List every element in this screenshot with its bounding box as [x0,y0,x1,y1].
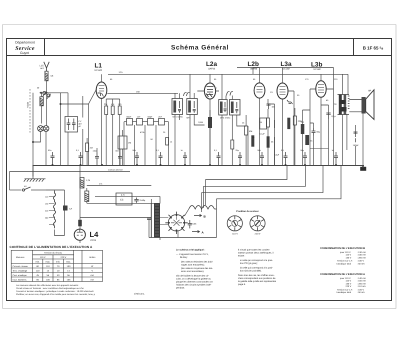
wire chain drops [123,122,169,165]
wire B+ top bus [108,73,348,75]
coupling marks MF2 [227,91,234,95]
wire left riser [9,172,11,191]
svg-text:0,1: 0,1 [156,149,160,152]
svg-text:50pF: 50pF [148,116,153,119]
tube L3b [316,81,326,98]
svg-text:105: 105 [67,278,71,281]
svg-text:tion PO (pt gras);: tion PO (pt gras); [240,262,258,265]
svg-text:95: 95 [57,278,60,281]
header right box divider [353,39,355,56]
svg-text:0,5M: 0,5M [198,121,203,124]
svg-text:1n: 1n [252,136,254,139]
svg-text:CV: CV [79,120,82,123]
resistor 1k osc [166,138,169,146]
barretter resistance wire [189,206,215,210]
svg-text:CONSOMMATION DE L'EXECUTION B: CONSOMMATION DE L'EXECUTION B [320,247,365,250]
wire barretter ends [185,209,217,216]
svg-text:mA: mA [91,278,95,281]
svg-text:170: 170 [305,78,309,81]
svg-text:1n: 1n [181,149,183,152]
terminal A [192,230,200,232]
svg-text:50: 50 [151,138,154,141]
svg-text:la galette telle qu'elle est r: la galette telle qu'elle est représentée [238,280,277,283]
svg-text:45: 45 [36,274,39,277]
svg-text:al Mécano,: al Mécano, [134,292,145,295]
svg-text:pour 110 V: pour 110 V [340,251,351,254]
svg-text:25: 25 [163,131,166,134]
wire extras [87,108,313,165]
capacitor L3a screen [287,100,293,104]
svg-text:Tension du réseau: Tension du réseau [44,252,63,255]
wire B+ feed [87,185,152,187]
svg-text:0,1µ: 0,1µ [332,115,337,118]
measurement table [11,250,102,281]
svg-text:25: 25 [242,122,245,125]
svg-text:10n: 10n [272,106,276,109]
series chain couplers [124,119,169,126]
svg-text:4,7k: 4,7k [121,194,125,197]
wire screen bus [237,67,334,69]
coupling marks MF1 [184,92,190,96]
svg-text:150: 150 [136,90,140,93]
svg-text:50µ: 50µ [317,131,321,134]
wire filter links [87,188,160,203]
svg-text:467: 467 [79,123,83,126]
svg-text:Mesures: Mesures [16,256,25,259]
resistor L3a grid2 [287,118,290,129]
wire L4 feed [80,165,151,243]
consumption block A [320,273,366,294]
svg-text:40: 40 [326,99,329,102]
capacitor cathode bypass [312,128,316,136]
svg-text:Cour. filaments: Cour. filaments [13,278,27,281]
bus junction dots [52,164,365,168]
svg-text:: 205 mA: : 205 mA [357,256,366,259]
rectifier anode blob [78,220,82,227]
svg-text:C9: C9 [270,91,273,94]
svg-text:HP: HP [368,90,372,93]
svg-text:Bi-fréq :: Bi-fréq : [180,256,188,259]
svg-text:: 105 V: : 105 V [357,288,364,291]
svg-text:B 1F 65 5/6: B 1F 65 5/6 [363,46,384,51]
svg-text:0,1: 0,1 [214,149,218,152]
resistor avc [267,136,270,147]
svg-text:50n: 50n [116,150,119,153]
svg-text:1k: 1k [170,141,172,144]
resistor R osc1 [105,106,108,115]
resistor AGC [86,143,89,152]
wire right jog [310,148,329,150]
svg-text:30: 30 [297,94,300,97]
cathode resistor L3a [301,124,305,134]
svg-text:Les mesures doivent être effec: Les mesures doivent être effectuées avec… [16,284,80,287]
oscillator coil [40,97,43,106]
svg-text:là celle qui correspond à: là celle qui correspond à la posi- [240,267,273,270]
svg-text:Schéma Général: Schéma Général [171,45,229,52]
table header text [16,252,96,264]
svg-text:2nF: 2nF [158,116,162,119]
wire transformer leads [149,196,217,240]
svg-text:2x50µ: 2x50µ [140,199,147,202]
wire L1 screen [107,92,178,94]
capacitor chain foot [118,153,122,166]
svg-text:20: 20 [37,87,40,90]
wire socket to transformer [160,218,168,225]
wire hp branch [355,125,357,165]
wire nested drop 3 [202,165,324,193]
svg-text:50n: 50n [133,149,136,152]
resistor R osc3 [118,106,121,115]
svg-text:115 V: 115 V [346,254,352,257]
resistor diode load [245,126,248,135]
IF transformer T1 [172,99,183,115]
svg-text:Tens. chauffage: Tens. chauffage [13,269,28,272]
wire IF feeds [175,74,205,165]
table rows [13,265,29,282]
svg-text:L3b: L3b [311,62,322,69]
coupling cap L2b-L3a [267,104,271,109]
tube L2a [204,83,215,99]
svg-text:110: 110 [46,265,50,268]
svg-text:pF: pF [79,125,82,128]
wire main chassis bus [33,165,365,167]
svg-text:1M: 1M [128,142,131,145]
IF transformer T4 [230,100,241,116]
filter cap [134,198,138,203]
svg-text:CONSOMMATION DE L'EXECUTION A: CONSOMMATION DE L'EXECUTION A [320,273,365,276]
svg-text:1nF: 1nF [137,116,141,119]
resistor R osc2 [111,106,114,115]
svg-text:Int.: Int. [24,185,27,188]
wire speaker leads [334,89,364,167]
tone cap [326,113,330,119]
svg-text:: 180 mA: : 180 mA [357,254,366,257]
svg-text:plaque les diverses commandes: plaque les diverses commandes ont [176,281,213,284]
svg-text:130 V: 130 V [346,282,352,285]
svg-text:56: 56 [47,274,50,277]
wire transfo primary [343,74,349,165]
IF transformer T2 [187,99,198,115]
svg-text:0,05: 0,05 [192,223,197,226]
wire L1 plate [101,74,103,165]
svg-text:14: 14 [47,269,50,272]
wire nested drop 4 [217,165,342,199]
terminal B [194,214,202,216]
loudspeaker [349,90,374,120]
wire mains line [10,189,22,191]
svg-text:470k: 470k [140,131,144,134]
svg-text:27k: 27k [99,183,102,186]
svg-text:CONTROLE DE L'ALIMENTATION DE: CONTROLE DE L'ALIMENTATION DE L'EXECUTIO… [10,245,94,249]
mains transformer core [154,204,160,238]
svg-text:7: 7 [216,87,218,90]
svg-text:W: W [91,265,94,268]
svg-text:110 V: 110 V [40,256,46,259]
svg-text:tion GO (en pointillé).: tion GO (en pointillé). [240,270,262,273]
antenna coil [45,71,48,81]
svg-text:N'utiliser, en aucun cas, d'ap: N'utiliser, en aucun cas, d'appareil à f… [16,293,96,296]
padder box [65,117,78,133]
wire heater chain [46,190,65,236]
CA component [63,206,68,211]
svg-text:: 100 V: : 100 V [357,260,364,263]
filter resistor 1 [80,178,84,189]
chassis earth [24,179,46,182]
ground blob [360,167,366,171]
wire osc left drop [32,93,34,177]
svg-text:80: 80 [36,265,39,268]
svg-text:UBF80: UBF80 [250,68,258,71]
svg-text:: 140 mA: : 140 mA [357,277,366,280]
wire grid chain [248,99,275,165]
antenna [44,62,49,71]
wire grid link [61,89,97,104]
svg-text:max.: max. [46,260,51,263]
svg-text:220 V: 220 V [255,233,261,236]
socket pin dots [168,214,185,231]
tube L3a [277,83,288,99]
svg-text:1k: 1k [310,140,313,143]
svg-text:L15: L15 [40,65,45,68]
svg-text:220 V: 220 V [61,256,67,259]
capacitor 0.05 [188,220,192,228]
svg-text:100: 100 [67,265,71,268]
svg-text:1n: 1n [332,149,334,152]
svg-text:A: A [202,230,205,234]
wire L2b pins [253,68,260,166]
svg-text:Cour. anodique: Cour. anodique [13,274,28,277]
svg-text:Consom. réseau: Consom. réseau [13,265,29,268]
svg-text:cuits, on a développé la galet: cuits, on a développé la galette ou [176,278,212,281]
heater dropper coil [53,191,55,228]
svg-text:existe :: existe : [238,255,246,258]
svg-text:0,1µF: 0,1µF [260,133,266,136]
header left box divider [44,39,46,56]
right text column [238,249,277,287]
svg-text:0,1: 0,1 [76,149,80,152]
svg-text:L3a: L3a [281,61,292,68]
svg-text:130: 130 [45,202,49,205]
svg-text:UY1N: UY1N [90,239,96,242]
svg-text:UCL82: UCL82 [283,68,291,71]
transformer primary line [150,204,152,238]
svg-text:P osition du secteur: P osition du secteur [236,210,258,213]
svg-text:page 6.: page 6. [238,283,246,286]
wire det drops [210,110,232,165]
resistor under T4 [231,140,234,149]
wire osc horizontal [40,92,69,94]
svg-text:(les valeurs résistives des bo: (les valeurs résistives des bobi- [181,261,213,264]
svg-text:220 V: 220 V [346,285,352,288]
svg-text:pendant.: pendant. [176,287,185,290]
svg-text:47k: 47k [111,103,115,106]
decoupling capacitors above bus [51,152,339,165]
svg-text:14: 14 [67,269,70,272]
svg-text:105: 105 [46,278,50,281]
coupling box L2b [260,118,267,129]
grid resistor box [118,136,127,149]
svg-text:95: 95 [214,78,217,81]
svg-text:70: 70 [57,265,60,268]
svg-text:I anodique total: I anodique total [336,291,351,294]
consumption block B [320,247,366,265]
drawing frame [7,39,392,301]
scatter value labels [110,78,338,141]
svg-text:Le schéma a été appliqué :: Le schéma a été appliqué : [176,249,205,252]
svg-text:B: B [204,214,207,218]
svg-text:Département: Département [15,41,35,45]
svg-text:afin de faciliter la lecture d: afin de faciliter la lecture des cir- [176,275,209,278]
svg-text:95: 95 [253,78,256,81]
svg-text:MF1 472kc: MF1 472kc [173,116,183,119]
svg-text:Triode: Triode [27,101,30,108]
svg-text:Contact antenne: Contact antenne [108,168,124,171]
wire L3a pins [283,68,295,166]
wire L3b pins [310,68,334,166]
paper edge right [395,25,397,309]
svg-text:95: 95 [36,278,39,281]
svg-text:CA: CA [69,208,73,211]
svg-text:50µ: 50µ [301,149,305,152]
middle text column [176,249,213,290]
cathode resistor L3b [305,135,309,145]
svg-text:l'aidants des circuits symbles: l'aidants des circuits symbles indé- [176,284,212,287]
mains selector 220V [250,216,265,231]
svg-text:min.: min. [56,260,61,263]
svg-text:2M: 2M [90,147,93,150]
capacitor osc pad [95,153,99,166]
svg-text:Unités: Unités [89,256,96,259]
svg-text:110 V: 110 V [232,233,238,236]
wire nested left ends [202,180,206,213]
wire T3 T4 feeds [222,74,246,165]
wire nested drop 2 [204,165,306,186]
svg-text:50pF: 50pF [127,116,132,119]
mains switch [22,187,46,191]
header band bottom rule [7,55,392,57]
svg-text:240: 240 [45,216,49,219]
svg-text:— L'appareil tous tension CH: — L'appareil tous tension CH V, [176,253,209,256]
resistor screen [293,116,296,125]
svg-text:: 160 mA: : 160 mA [357,280,366,283]
filter resistor 2 [85,191,89,202]
capacitor 150pF pair [354,132,358,142]
svg-text:7,8µF: 7,8µF [274,154,280,157]
detector resistor [208,117,212,128]
wire coil feed [41,93,43,124]
svg-text:110: 110 [45,195,49,198]
wire antenna down [46,81,48,93]
wire L2a pins [197,74,219,165]
svg-text:Guyot: Guyot [20,51,29,55]
svg-text:sions sont encadrées).: sions sont encadrées). [181,270,204,273]
svg-text:40: 40 [57,274,60,277]
svg-text:L4: L4 [90,230,100,239]
svg-text:50k: 50k [249,130,253,133]
paper edge left [2,25,4,309]
capacitor value labels [48,149,334,152]
svg-text:110: 110 [36,269,40,272]
svg-text:: 50 mA: : 50 mA [357,262,365,265]
svg-text:1,2k: 1,2k [86,179,91,182]
svg-text:L2a: L2a [206,61,217,68]
tube L2b [254,83,265,98]
svg-text:MF2 472kc: MF2 472kc [220,117,230,120]
svg-text:min.: min. [36,260,41,263]
wire cathode drops [303,110,311,165]
svg-text:56: 56 [67,274,70,277]
svg-text:10: 10 [57,269,60,272]
svg-text:UCL82: UCL82 [314,68,322,71]
tap labels [45,195,49,219]
svg-text:TS: TS [334,103,337,106]
valve socket [165,212,187,234]
svg-text:MF1: MF1 [187,117,192,120]
svg-text:Tension sur C.F.: Tension sur C.F. [337,288,353,291]
output transformer [338,95,350,115]
IF transformer T3 [219,100,228,116]
svg-text:max.: max. [66,260,71,263]
svg-text:4,8: 4,8 [50,75,54,78]
svg-text:25: 25 [271,141,274,144]
svg-text:nages sont entourées);: nages sont entourées); [181,264,205,267]
svg-text:UCH42: UCH42 [95,69,103,72]
svg-text:Courant et tension anodiques :: Courant et tension anodiques : périodiqu… [16,290,94,293]
svg-text:sateurs portant deux astéri: sateurs portant deux astérisques, il [238,252,274,255]
table notes [16,284,96,296]
heater taps [49,197,55,225]
svg-text:si celle qui correspond à: si celle qui correspond à la posi- [240,259,273,262]
svg-text:150pF: 150pF [353,144,360,147]
svg-text:UAF42: UAF42 [208,68,216,71]
svg-text:(les valeurs moyennes des ten-: (les valeurs moyennes des ten- [181,267,213,270]
CS box [116,193,132,205]
wire nested drop 1 [206,165,288,180]
svg-text:50n: 50n [258,149,261,152]
svg-text:Tension sur C.F.: Tension sur C.F. [337,260,353,263]
wire tone [321,105,329,165]
mains cap [147,218,151,219]
svg-text:: 130 mA: : 130 mA [357,251,366,254]
svg-text:chés correspondent aux posi: chés correspondent aux positions de [238,277,276,280]
svg-text:220: 220 [45,209,49,212]
svg-text:mA: mA [91,274,95,277]
svg-text:130 V: 130 V [346,256,352,259]
resistor L3a grid [267,118,270,127]
svg-text:Il s'avait que toutes les: Il s'avait que toutes les conden- [238,249,270,252]
svg-text:: 50 mA: : 50 mA [357,291,365,294]
svg-text:CS: CS [120,199,124,202]
svg-text:I anodique total: I anodique total [336,262,351,265]
svg-text:115 V: 115 V [346,280,352,283]
tuning gang capacitor [38,126,49,132]
mains selector 110V [227,216,242,231]
svg-text:Dans tous les cas, les chiffre: Dans tous les cas, les chiffres souv- [238,274,275,277]
svg-text:: 110 mA: : 110 mA [357,285,366,288]
svg-text:85: 85 [110,78,113,81]
wire gang down [33,93,47,165]
svg-text:0,1: 0,1 [281,149,285,152]
paper edge top [3,24,397,26]
svg-text:: 205 mA: : 205 mA [357,282,366,285]
trimmer nodes [43,92,51,99]
svg-text:L2b: L2b [248,61,259,68]
svg-text:pour 110 V: pour 110 V [340,277,351,280]
svg-text:50n: 50n [48,149,51,152]
header department text [15,41,35,56]
svg-text:220: 220 [334,78,338,81]
wire padder feeds [61,93,89,165]
